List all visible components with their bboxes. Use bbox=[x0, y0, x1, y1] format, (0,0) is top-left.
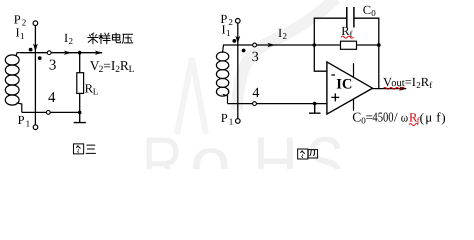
svg-text:C: C bbox=[352, 110, 361, 125]
svg-text:3: 3 bbox=[252, 50, 259, 65]
op-amp power stub bottom bbox=[353, 100, 355, 111]
terminal 3 circle (right) bbox=[253, 43, 257, 47]
wire: C0 right lead down to output bbox=[354, 18, 379, 88]
op-amp power stub top bbox=[353, 63, 355, 76]
terminal P2 (right) bbox=[236, 19, 241, 24]
svg-text:C: C bbox=[363, 3, 371, 17]
op-amp plus sign bbox=[331, 93, 339, 101]
wire: secondary bottom lead to op-amp + (right) bbox=[228, 103, 327, 105]
svg-text:2: 2 bbox=[283, 31, 288, 41]
svg-text:R: R bbox=[120, 58, 129, 73]
label 采样电压 bbox=[88, 33, 133, 44]
svg-text:H: H bbox=[253, 123, 298, 169]
svg-text:0: 0 bbox=[371, 8, 376, 18]
primary wire P2-P1 (right) bbox=[237, 23, 239, 118]
inductor L1 (left transformer coil) bbox=[16, 53, 22, 113]
op-amp U1 triangle bbox=[327, 62, 373, 114]
svg-text:μ: μ bbox=[425, 110, 432, 125]
svg-text:1: 1 bbox=[20, 31, 25, 41]
terminal P2 (left) bbox=[33, 21, 38, 26]
svg-text:): ) bbox=[441, 110, 445, 125]
ground (left) bbox=[74, 112, 86, 122]
svg-text:1: 1 bbox=[226, 28, 231, 38]
capacitor C0 plates bbox=[347, 7, 354, 28]
glyph 电 bbox=[112, 33, 120, 43]
junction node A bbox=[313, 43, 317, 47]
terminal P1 (right) bbox=[236, 119, 241, 124]
glyph 采 bbox=[88, 33, 98, 44]
glyph 样 bbox=[99, 33, 110, 44]
wire: node A down to inverting input bbox=[314, 45, 327, 71]
primary wire P2-P1 (left) bbox=[34, 26, 36, 125]
figure 4: current transformer with op-amp I/V converter bbox=[216, 18, 406, 123]
svg-text:=I: =I bbox=[103, 58, 116, 73]
wire: Rf left lead bbox=[314, 44, 340, 46]
wire: Rf right lead bbox=[357, 44, 379, 46]
wire: secondary bottom lead (left) bbox=[22, 111, 80, 113]
svg-text:o: o bbox=[190, 123, 231, 169]
resistor Rf box bbox=[341, 41, 357, 49]
glyph 四 bbox=[308, 150, 317, 158]
I1 arrowhead (left) bbox=[33, 44, 38, 52]
output arrowhead 采样电压 (left) bbox=[95, 51, 103, 55]
op-amp minus sign bbox=[331, 74, 335, 76]
terminal 4 circle (left) bbox=[46, 111, 50, 115]
svg-text:1: 1 bbox=[229, 116, 234, 126]
polarity dot secondary (left) bbox=[38, 56, 42, 60]
junction at op-amp + input bbox=[313, 102, 317, 106]
junction node top of RL (left) bbox=[78, 51, 82, 55]
junction node B bbox=[377, 43, 381, 47]
glyph 图 bbox=[73, 144, 83, 154]
svg-text:4500: 4500 bbox=[372, 110, 393, 125]
junction node bottom of RL (left) bbox=[78, 111, 82, 115]
svg-text:ω: ω bbox=[401, 111, 408, 125]
svg-text:(: ( bbox=[420, 110, 424, 125]
ground at + input bbox=[309, 104, 321, 114]
svg-text:2: 2 bbox=[228, 17, 233, 27]
svg-text:IC: IC bbox=[336, 77, 352, 93]
glyph 压 bbox=[122, 34, 133, 43]
inductor L2 (right transformer coil) bbox=[223, 45, 228, 104]
svg-text:4: 4 bbox=[252, 86, 259, 101]
polarity dot primary (right) bbox=[232, 39, 236, 43]
svg-text:P: P bbox=[18, 113, 25, 127]
figure 3: current transformer with sampling resistor RL bbox=[5, 21, 102, 130]
red squiggle under Vout bbox=[384, 87, 405, 89]
caption 图四 bbox=[298, 149, 318, 159]
wire: secondary top lead to node A (right) bbox=[227, 44, 315, 46]
svg-text:1: 1 bbox=[26, 118, 31, 128]
polarity dot primary (left) bbox=[29, 48, 33, 52]
svg-text:/: / bbox=[394, 110, 398, 125]
svg-text:S: S bbox=[306, 123, 344, 169]
terminal 4 circle (right) bbox=[253, 102, 257, 106]
svg-text:4: 4 bbox=[48, 90, 56, 106]
red squiggle under formula Rf bbox=[409, 124, 418, 126]
I2 arrowhead mid-wire (left) bbox=[64, 51, 72, 55]
svg-text:P: P bbox=[14, 12, 21, 26]
terminal P1 (left) bbox=[33, 125, 38, 130]
polarity dot secondary (right) bbox=[242, 49, 246, 53]
I2 arrowhead (right) bbox=[267, 43, 275, 47]
wire: secondary top lead (left) bbox=[21, 52, 103, 54]
caption 图三 bbox=[73, 144, 95, 154]
resistor RL branch wires bbox=[79, 53, 81, 113]
svg-text:=I: =I bbox=[405, 75, 416, 89]
output arrowhead Vout bbox=[399, 86, 407, 90]
glyph 三 bbox=[86, 145, 96, 153]
I1 arrowhead (right) bbox=[235, 36, 240, 44]
terminal 3 circle (left) bbox=[47, 51, 51, 55]
svg-text:L: L bbox=[93, 86, 99, 96]
svg-text:f: f bbox=[429, 80, 432, 90]
svg-text:P: P bbox=[221, 111, 228, 125]
svg-text:2: 2 bbox=[69, 36, 74, 46]
wire: op-amp output with arrow bbox=[373, 88, 407, 90]
resistor RL box bbox=[77, 73, 84, 94]
svg-text:3: 3 bbox=[49, 57, 57, 73]
svg-text:2: 2 bbox=[22, 18, 27, 28]
svg-text:L: L bbox=[129, 65, 135, 75]
glyph 图 bbox=[298, 149, 308, 159]
wire: node A up to C0 left lead bbox=[314, 18, 346, 45]
